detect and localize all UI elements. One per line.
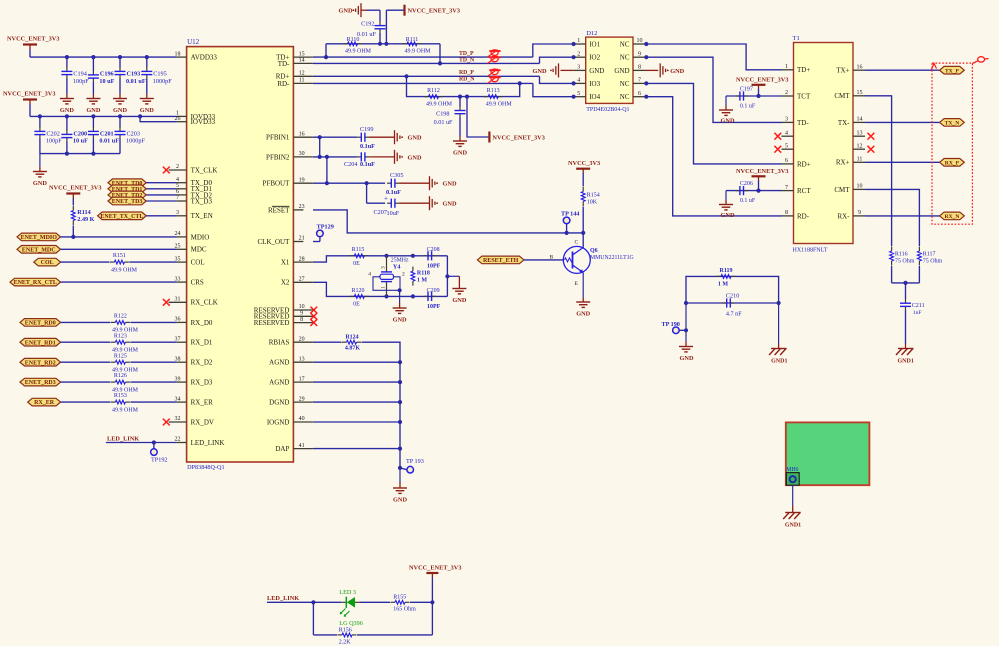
wire ENET_RX_CTL to pin 33 [61, 281, 177, 283]
D12 pin 2 IO2 [574, 51, 601, 61]
resistor R153 49.9 OHM [111, 393, 139, 413]
differential pair marker RD_P [488, 69, 501, 76]
svg-text:GND: GND [408, 135, 422, 142]
wire crystal case to GND [399, 290, 401, 308]
svg-text:ENET_MDC: ENET_MDC [22, 247, 56, 253]
svg-text:49.9 OHM: 49.9 OHM [111, 267, 138, 273]
svg-text:5: 5 [577, 91, 580, 97]
no-connect X on T1 pin 5 [774, 146, 781, 153]
svg-text:49.9 OHM: 49.9 OHM [486, 102, 513, 108]
wire CMT pin 15 to R116 [865, 96, 892, 246]
T1 pin 13 NC [853, 130, 865, 136]
differential pair marker TD_N [488, 56, 501, 63]
wire PFBOUT to C207 [366, 183, 368, 203]
resistor R115 0E [350, 247, 369, 267]
svg-text:C210: C210 [726, 292, 739, 299]
svg-text:100pF: 100pF [46, 138, 62, 145]
U12 pin 12 RD+ [276, 71, 313, 81]
junction dot RD+ / R112 [404, 74, 408, 78]
svg-text:GND: GND [60, 107, 74, 114]
junction dot TP192 [152, 440, 156, 444]
svg-text:4.7 nF: 4.7 nF [726, 310, 742, 317]
D12 pin 1 IO1 [574, 38, 601, 48]
svg-text:TD-: TD- [797, 119, 809, 127]
wire TX+ to port TX_P [865, 69, 940, 71]
capacitor C194 100pF [61, 57, 89, 98]
svg-text:36: 36 [175, 317, 181, 323]
U12 pin 15 TD+ [276, 51, 313, 61]
svg-text:0.1uF: 0.1uF [360, 161, 375, 168]
svg-text:PFBIN2: PFBIN2 [266, 153, 290, 161]
svg-text:TX_N: TX_N [945, 121, 960, 127]
resistor R113 49.9 OHM [484, 88, 513, 108]
svg-text:U12: U12 [187, 38, 200, 46]
svg-text:R124: R124 [345, 335, 358, 341]
svg-text:0.1uF: 0.1uF [360, 143, 375, 150]
svg-text:C204: C204 [344, 161, 357, 168]
svg-text:C199: C199 [360, 126, 373, 133]
svg-text:RX_D1: RX_D1 [191, 339, 213, 347]
dashed differential port group box [932, 63, 972, 224]
svg-text:NVCC_ENET_3V3: NVCC_ENET_3V3 [3, 91, 55, 98]
U12 pin 38 RX_D2 [175, 356, 213, 366]
svg-text:C206: C206 [740, 181, 753, 187]
junction dot LED supply node [430, 600, 434, 604]
svg-text:GND: GND [393, 317, 407, 324]
svg-text:R112: R112 [427, 88, 440, 94]
crystal Y4 25MHz [368, 256, 409, 297]
wire Q6 collector [582, 233, 584, 248]
svg-text:TX_D3: TX_D3 [191, 197, 213, 205]
svg-text:2.49 K: 2.49 K [77, 216, 94, 223]
power port NVCC_ENET_3V3 at RCT [736, 168, 788, 191]
junction dot D12 pin1 [572, 42, 576, 46]
wire RBIAS pin 20 to R124 [313, 341, 342, 343]
U12 pin 24 MDIO [175, 231, 210, 241]
D12 pin 6 NC [620, 91, 645, 101]
svg-text:23: 23 [299, 204, 305, 210]
svg-text:R122: R122 [114, 314, 127, 320]
svg-text:10: 10 [637, 38, 643, 44]
no-connect X on U12 pin 8 RESERVED [310, 319, 317, 326]
wire R116/R117 join [892, 266, 920, 283]
svg-text:RD+: RD+ [797, 160, 811, 168]
wire C206 to GND [725, 191, 727, 205]
U12 pin 31 RX_CLK [169, 297, 218, 307]
svg-text:38: 38 [175, 356, 181, 362]
diode array D12 TPD4E02B04-Q1 body [586, 37, 633, 103]
svg-text:0.1uF: 0.1uF [386, 189, 401, 196]
resistor R117 75 Ohm [918, 247, 943, 266]
svg-text:NVCC_ENET_3V3: NVCC_ENET_3V3 [7, 36, 59, 43]
svg-text:75 Ohm: 75 Ohm [923, 258, 943, 264]
svg-text:IO3: IO3 [589, 80, 600, 88]
net tag ENET_MDIO [17, 233, 61, 241]
svg-text:RX_ER: RX_ER [191, 399, 214, 407]
wire RD- pin 11 net RD_N [313, 82, 533, 84]
svg-text:RD-: RD- [797, 212, 810, 220]
svg-text:TP129: TP129 [317, 223, 334, 230]
wire DGND pin 29 to bus [313, 401, 400, 403]
junction dot D12 pin5 [572, 95, 576, 99]
no-ERC pigtail marker [972, 57, 988, 64]
svg-text:GND: GND [680, 355, 694, 362]
svg-text:C211: C211 [912, 303, 925, 309]
ground symbol GND at C198 [453, 141, 467, 157]
svg-text:TCT: TCT [797, 92, 811, 100]
svg-text:9: 9 [300, 311, 303, 317]
wire R156 branch [313, 634, 337, 636]
wire ENET_TD1 to pin 5 [146, 188, 176, 190]
wire RD- to T1 pin 8 [646, 97, 781, 216]
svg-text:30: 30 [299, 151, 305, 157]
svg-text:LG Q396: LG Q396 [339, 620, 363, 627]
wire LED_LINK to pin 22 [106, 442, 177, 444]
svg-text:32: 32 [175, 416, 181, 422]
junction dots on AVDD rail [65, 55, 149, 59]
U12 pin 10 RESERVED [254, 304, 314, 314]
wire NVCC to LED node [431, 578, 433, 635]
wire TX- to port TX_N [865, 121, 940, 123]
T1 pin 9 RX- [837, 210, 865, 220]
U12 pin 35 COL [175, 256, 205, 266]
U12 pin 30 PFBIN2 [266, 151, 313, 161]
junction dot D12 pin6 [644, 95, 648, 99]
no-connect X on T1 pin 13 [868, 133, 875, 140]
wire R126 to U12 [130, 381, 176, 383]
svg-text:2: 2 [577, 51, 580, 57]
T1 pin 4 NC [782, 130, 794, 136]
svg-text:GND: GND [408, 154, 422, 161]
test point TP129 [317, 223, 334, 236]
svg-text:4: 4 [785, 130, 788, 136]
no-connect X on T1 pin 12 [868, 146, 875, 153]
capacitor C200 10 uF [61, 116, 88, 153]
svg-text:NVCC_ENET_3V3: NVCC_ENET_3V3 [49, 185, 101, 192]
T1 pin 11 RX+ [836, 157, 865, 167]
junction dots on bottom cap bus [65, 152, 96, 156]
svg-text:10uF: 10uF [387, 210, 400, 217]
svg-text:RX_N: RX_N [944, 214, 959, 220]
svg-text:CRS: CRS [191, 279, 204, 287]
svg-text:C209: C209 [427, 288, 440, 294]
svg-text:14: 14 [299, 58, 305, 64]
svg-text:GND: GND [670, 68, 684, 75]
U12 pin 2 TX_CLK [169, 164, 218, 174]
svg-text:LED 3: LED 3 [339, 589, 356, 596]
svg-text:9: 9 [858, 210, 861, 216]
U12 pin 27 X2 [281, 277, 313, 287]
svg-text:COL: COL [41, 260, 54, 266]
svg-text:R115: R115 [352, 247, 365, 253]
svg-text:TD-: TD- [278, 60, 290, 68]
svg-text:0.01 uF: 0.01 uF [99, 138, 119, 145]
ground symbol GND under C196 [86, 99, 100, 115]
svg-text:C197: C197 [740, 86, 753, 92]
svg-text:LED_LINK: LED_LINK [191, 439, 225, 447]
svg-text:GND: GND [452, 297, 466, 304]
svg-text:15: 15 [299, 51, 305, 57]
svg-text:RX_D3: RX_D3 [191, 379, 213, 387]
svg-text:49.9 OHM: 49.9 OHM [112, 407, 139, 413]
T1 pin 14 TX- [838, 117, 865, 127]
junction dot D12 pin10 [644, 42, 648, 46]
wire MH6 to GND1 [792, 485, 794, 512]
svg-text:RX-: RX- [837, 212, 850, 220]
wire to crystal GND symbol [447, 276, 459, 288]
capacitor C196 10 uF [88, 57, 115, 98]
svg-text:TD+: TD+ [797, 66, 810, 74]
svg-text:34: 34 [175, 396, 181, 402]
resistor R151 49.9 OHM [110, 253, 138, 273]
wire RX+ to port RX_P [865, 161, 940, 163]
svg-text:C202: C202 [46, 131, 59, 138]
ground symbol GND for IOVDD caps [33, 172, 47, 188]
wire CLK_OUT pin 21 to TP129 [313, 241, 320, 243]
svg-text:RX_P: RX_P [945, 160, 960, 166]
svg-text:12: 12 [299, 71, 305, 77]
wire TD+ to T1 pin 1 [646, 44, 781, 70]
svg-text:10 uF: 10 uF [73, 138, 88, 145]
wire ground bridge top [686, 276, 779, 303]
junction dot D12 pin9 [644, 55, 648, 59]
svg-text:40: 40 [299, 416, 305, 422]
ground symbol GND at D12 pin 3 [533, 63, 574, 77]
ground symbol GND at C206 [719, 205, 735, 220]
svg-text:LED_LINK: LED_LINK [107, 436, 139, 443]
wire to GND from cap bus [39, 154, 41, 172]
ground symbol GND at D12 pin 8 [645, 63, 685, 77]
ground symbol GND right of crystal caps [452, 289, 466, 305]
wire ENET_RD3 to R126 [61, 381, 111, 383]
resistor R120 0E [350, 288, 369, 308]
no-connect X on U12 pin 10 RESERVED [310, 307, 317, 314]
svg-text:ENET_TX_CTL: ENET_TX_CTL [100, 214, 143, 220]
U12 pin 21 CLK_OUT [258, 236, 305, 246]
svg-text:DGND: DGND [269, 399, 289, 407]
net tag ENET_RD2 [20, 358, 61, 366]
net tag RESET_ETH [477, 256, 524, 264]
U12 pin 7 TX_D3 [176, 195, 212, 205]
svg-text:RX+: RX+ [836, 159, 850, 167]
svg-text:R125: R125 [114, 353, 127, 359]
mounting hole MH6 board outline [786, 422, 870, 485]
svg-text:RESET_ETH: RESET_ETH [483, 258, 519, 264]
svg-text:GND: GND [339, 8, 353, 15]
svg-text:MH6: MH6 [786, 467, 798, 473]
junction dot D12 pin7 [644, 81, 648, 85]
chassis ground GND1 at MH6 [783, 513, 801, 529]
transformer T1 HX1188FNLT body [794, 43, 854, 244]
svg-text:6: 6 [785, 158, 788, 164]
resistor R155 165 Ohm [391, 595, 417, 613]
wire C211 to GND1 [905, 344, 907, 349]
U12 pin 36 RX_D0 [175, 317, 213, 327]
svg-text:R154: R154 [587, 193, 600, 199]
junction dots ground bridge [684, 301, 781, 305]
svg-text:3: 3 [176, 210, 179, 216]
svg-text:GND: GND [721, 118, 735, 125]
svg-text:ENET_RX_CTL: ENET_RX_CTL [14, 280, 57, 286]
no-connect X on U12 pin 9 RESERVED [310, 313, 317, 320]
svg-text:DAP: DAP [275, 445, 289, 453]
T1 pin 8 RD- [782, 210, 810, 220]
svg-text:RX_CLK: RX_CLK [191, 299, 218, 307]
T1 pin 6 RD+ [782, 158, 811, 168]
svg-text:25: 25 [175, 244, 181, 250]
wire ENET_TD0 to pin 4 [146, 182, 176, 184]
U12 pin 13 AGND [269, 356, 313, 366]
wire Q6 emitter to GND [582, 273, 584, 303]
wire ENET_MDIO to pin 24 [61, 236, 177, 238]
svg-text:CMT: CMT [834, 92, 850, 100]
wire RD termination rail [407, 76, 520, 96]
U12 pin 39 RX_D3 [175, 376, 213, 386]
svg-text:10K: 10K [587, 200, 598, 206]
svg-text:R120: R120 [351, 288, 364, 294]
svg-text:29: 29 [299, 396, 305, 402]
junction dot TD- / R111 [438, 61, 442, 65]
U12 pin 22 LED_LINK [175, 437, 225, 447]
svg-text:12: 12 [857, 143, 863, 149]
port TX_P [940, 66, 965, 74]
svg-text:5: 5 [176, 183, 179, 189]
wire TD+ pin 15 net TD_P [313, 56, 533, 58]
U12 pin 14 TD- [278, 58, 313, 68]
svg-text:AGND: AGND [269, 379, 289, 387]
svg-text:T1: T1 [793, 35, 800, 42]
svg-text:ENET_TD3: ENET_TD3 [112, 199, 143, 205]
U12 pin 29 DGND [269, 396, 313, 406]
svg-text:PFBOUT: PFBOUT [263, 180, 291, 188]
svg-text:X1: X1 [281, 259, 290, 267]
svg-text:GND: GND [533, 68, 547, 75]
wire R124 to ground bus [362, 342, 401, 468]
svg-text:C195: C195 [153, 71, 166, 78]
svg-text:GND: GND [721, 212, 735, 219]
D12 pin 3 GND [574, 65, 605, 75]
svg-text:GND: GND [393, 497, 407, 504]
U12 pin 18 AVDD33 [175, 51, 218, 61]
capacitor C208 10PF [424, 247, 441, 269]
svg-text:DP83848Q-Q1: DP83848Q-Q1 [187, 464, 224, 471]
svg-text:1000pF: 1000pF [153, 78, 172, 85]
svg-text:R153: R153 [114, 393, 127, 399]
port TX_N [940, 119, 965, 127]
resistor R116 75 Ohm [890, 247, 915, 266]
chassis ground GND1 at C211 [896, 349, 914, 365]
svg-text:NVCC_ENET_3V3: NVCC_ENET_3V3 [736, 76, 788, 83]
D12 pin 4 IO3 [574, 78, 601, 88]
resistor R126 49.9 OHM [111, 373, 139, 393]
svg-text:18: 18 [175, 51, 181, 57]
svg-text:2: 2 [785, 90, 788, 96]
net label LED_LINK [107, 436, 139, 443]
svg-text:RX_DV: RX_DV [191, 418, 214, 426]
svg-text:IOVD33: IOVD33 [191, 118, 216, 126]
svg-text:NC: NC [620, 93, 630, 101]
svg-text:TX+: TX+ [836, 67, 849, 75]
U12 pin 34 RX_ER [175, 396, 214, 406]
net tag ENET_TD2 [108, 191, 146, 199]
net tag ENET_TX_CTL [98, 212, 147, 220]
wire TD- to T1 pin 3 [646, 57, 781, 122]
capacitor C199 0.1uF [355, 126, 395, 150]
svg-text:RX_ER: RX_ER [34, 400, 55, 406]
wire RD_N jog to D12 pin 5 [533, 83, 574, 96]
wire R156 to supply [357, 634, 432, 636]
svg-text:0.01 uF: 0.01 uF [126, 78, 146, 85]
capacitor C203 1000pF [115, 116, 146, 153]
U12 pin 33 CRS [175, 276, 204, 286]
ground symbol GND for ground bus [393, 488, 407, 504]
svg-text:2: 2 [176, 164, 179, 170]
svg-text:IOGND: IOGND [267, 418, 290, 426]
power port NVCC_ENET_3V3 for LED [409, 564, 461, 577]
junction dot TCT [756, 94, 760, 98]
svg-text:1 M: 1 M [718, 282, 729, 288]
junction dot cap gnd [445, 274, 449, 278]
T1 pin 7 RCT [782, 185, 812, 195]
svg-text:MMUN2211LT1G: MMUN2211LT1G [590, 255, 634, 261]
svg-text:3: 3 [381, 266, 387, 269]
wire IOVDD rail to pin 1 [29, 104, 31, 116]
ground symbol GND at C305 [430, 176, 457, 190]
capacitor C192 0.01 uF [357, 10, 386, 44]
U12 pin 6 TX_D2 [176, 189, 212, 199]
svg-text:7: 7 [638, 78, 641, 84]
svg-text:C: C [575, 240, 579, 246]
ground symbol GND at C192 [339, 3, 362, 17]
ground symbol GND under C194 [60, 99, 74, 115]
net tag ENET_TD1 [108, 185, 146, 193]
blanket directive triangle [932, 64, 937, 70]
svg-text:13: 13 [299, 356, 305, 362]
resistor R122 49.9 OHM [111, 314, 139, 334]
svg-text:TX_P: TX_P [945, 68, 960, 74]
resistor R112 49.9 OHM [424, 88, 453, 108]
svg-text:TD_P: TD_P [459, 51, 474, 57]
net tag ENET_RD0 [20, 319, 61, 327]
resistor R156 2.2K [338, 627, 357, 645]
svg-text:ENET_RD3: ENET_RD3 [25, 380, 56, 386]
ground symbol GND at C197 [719, 110, 735, 125]
power port NVCC_ENET_3V3 at TD rail [386, 5, 460, 44]
svg-text:C198: C198 [436, 111, 449, 118]
svg-text:C201: C201 [100, 131, 114, 138]
junction dots TD rail [378, 42, 389, 46]
wire IOGND pin 40 to bus [313, 421, 400, 423]
svg-text:GND1: GND1 [771, 358, 787, 364]
svg-text:TP 193: TP 193 [406, 458, 424, 465]
junction dots on ground bus [398, 360, 402, 470]
svg-text:5: 5 [785, 143, 788, 149]
junction dot TP190 [684, 328, 688, 332]
net tag ENET_RD1 [20, 338, 61, 346]
differential pair marker TD_P [488, 50, 501, 57]
svg-text:4.87K: 4.87K [345, 346, 361, 352]
MH6 pad square [786, 473, 799, 486]
wire crystal caps to GND [446, 256, 448, 297]
U12 pin 8 RESERVED [254, 317, 314, 327]
resistor R119 1 M [717, 268, 736, 288]
svg-text:C305: C305 [390, 172, 403, 179]
svg-text:LED_LINK: LED_LINK [267, 595, 299, 602]
wire AGND pin 17 to bus [313, 381, 400, 383]
no-connect X on T1 pin 4 [774, 133, 781, 140]
svg-text:RD_N: RD_N [459, 77, 475, 83]
svg-text:27: 27 [299, 277, 305, 283]
